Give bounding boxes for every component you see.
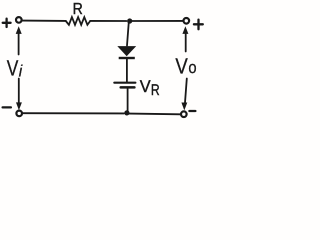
Vi arrowhead up <box>16 26 22 34</box>
svg-text:R: R <box>151 82 160 99</box>
svg-text:V: V <box>175 53 188 78</box>
wire node A down to diode D <box>127 22 129 46</box>
node A junction dot <box>127 18 132 23</box>
diode D triangle (cathode down) <box>117 46 136 56</box>
wire battery to node B <box>127 89 129 113</box>
terminal bottom-right <box>181 111 187 117</box>
bottom wire node B to right terminal <box>130 113 181 116</box>
wire resistor to node A <box>90 20 126 22</box>
Vo arrow lower shaft <box>185 79 187 105</box>
svg-text:V: V <box>7 56 19 81</box>
wire top-left to resistor <box>22 20 66 22</box>
Vo arrowhead down <box>181 103 187 111</box>
plus sign top-left terminal polarity <box>3 19 11 27</box>
svg-text:o: o <box>188 58 196 77</box>
Vo arrow upper shaft <box>185 30 187 52</box>
Vi arrow upper shaft <box>18 30 20 55</box>
minus sign bottom-right terminal polarity <box>189 110 195 112</box>
terminal bottom-left <box>16 111 22 117</box>
Vi arrow lower shaft <box>18 79 20 105</box>
svg-text:V: V <box>140 77 152 96</box>
diode D cathode bar <box>119 57 135 59</box>
wire diode to battery <box>126 59 128 81</box>
Vo arrowhead up <box>182 26 188 34</box>
battery VR long plate <box>114 82 135 84</box>
plus sign top-right terminal polarity <box>194 20 203 30</box>
bottom wire left terminal to node B <box>22 112 124 114</box>
terminal top-right <box>184 18 190 24</box>
svg-text:R: R <box>73 1 83 18</box>
node B junction dot <box>124 110 129 115</box>
resistor R <box>66 17 90 25</box>
terminal top-left <box>16 17 22 23</box>
minus sign bottom-left terminal polarity <box>3 106 11 108</box>
battery VR short plate <box>121 86 135 89</box>
wire node A to top-right terminal <box>132 20 183 22</box>
Vi arrowhead down <box>16 102 22 110</box>
